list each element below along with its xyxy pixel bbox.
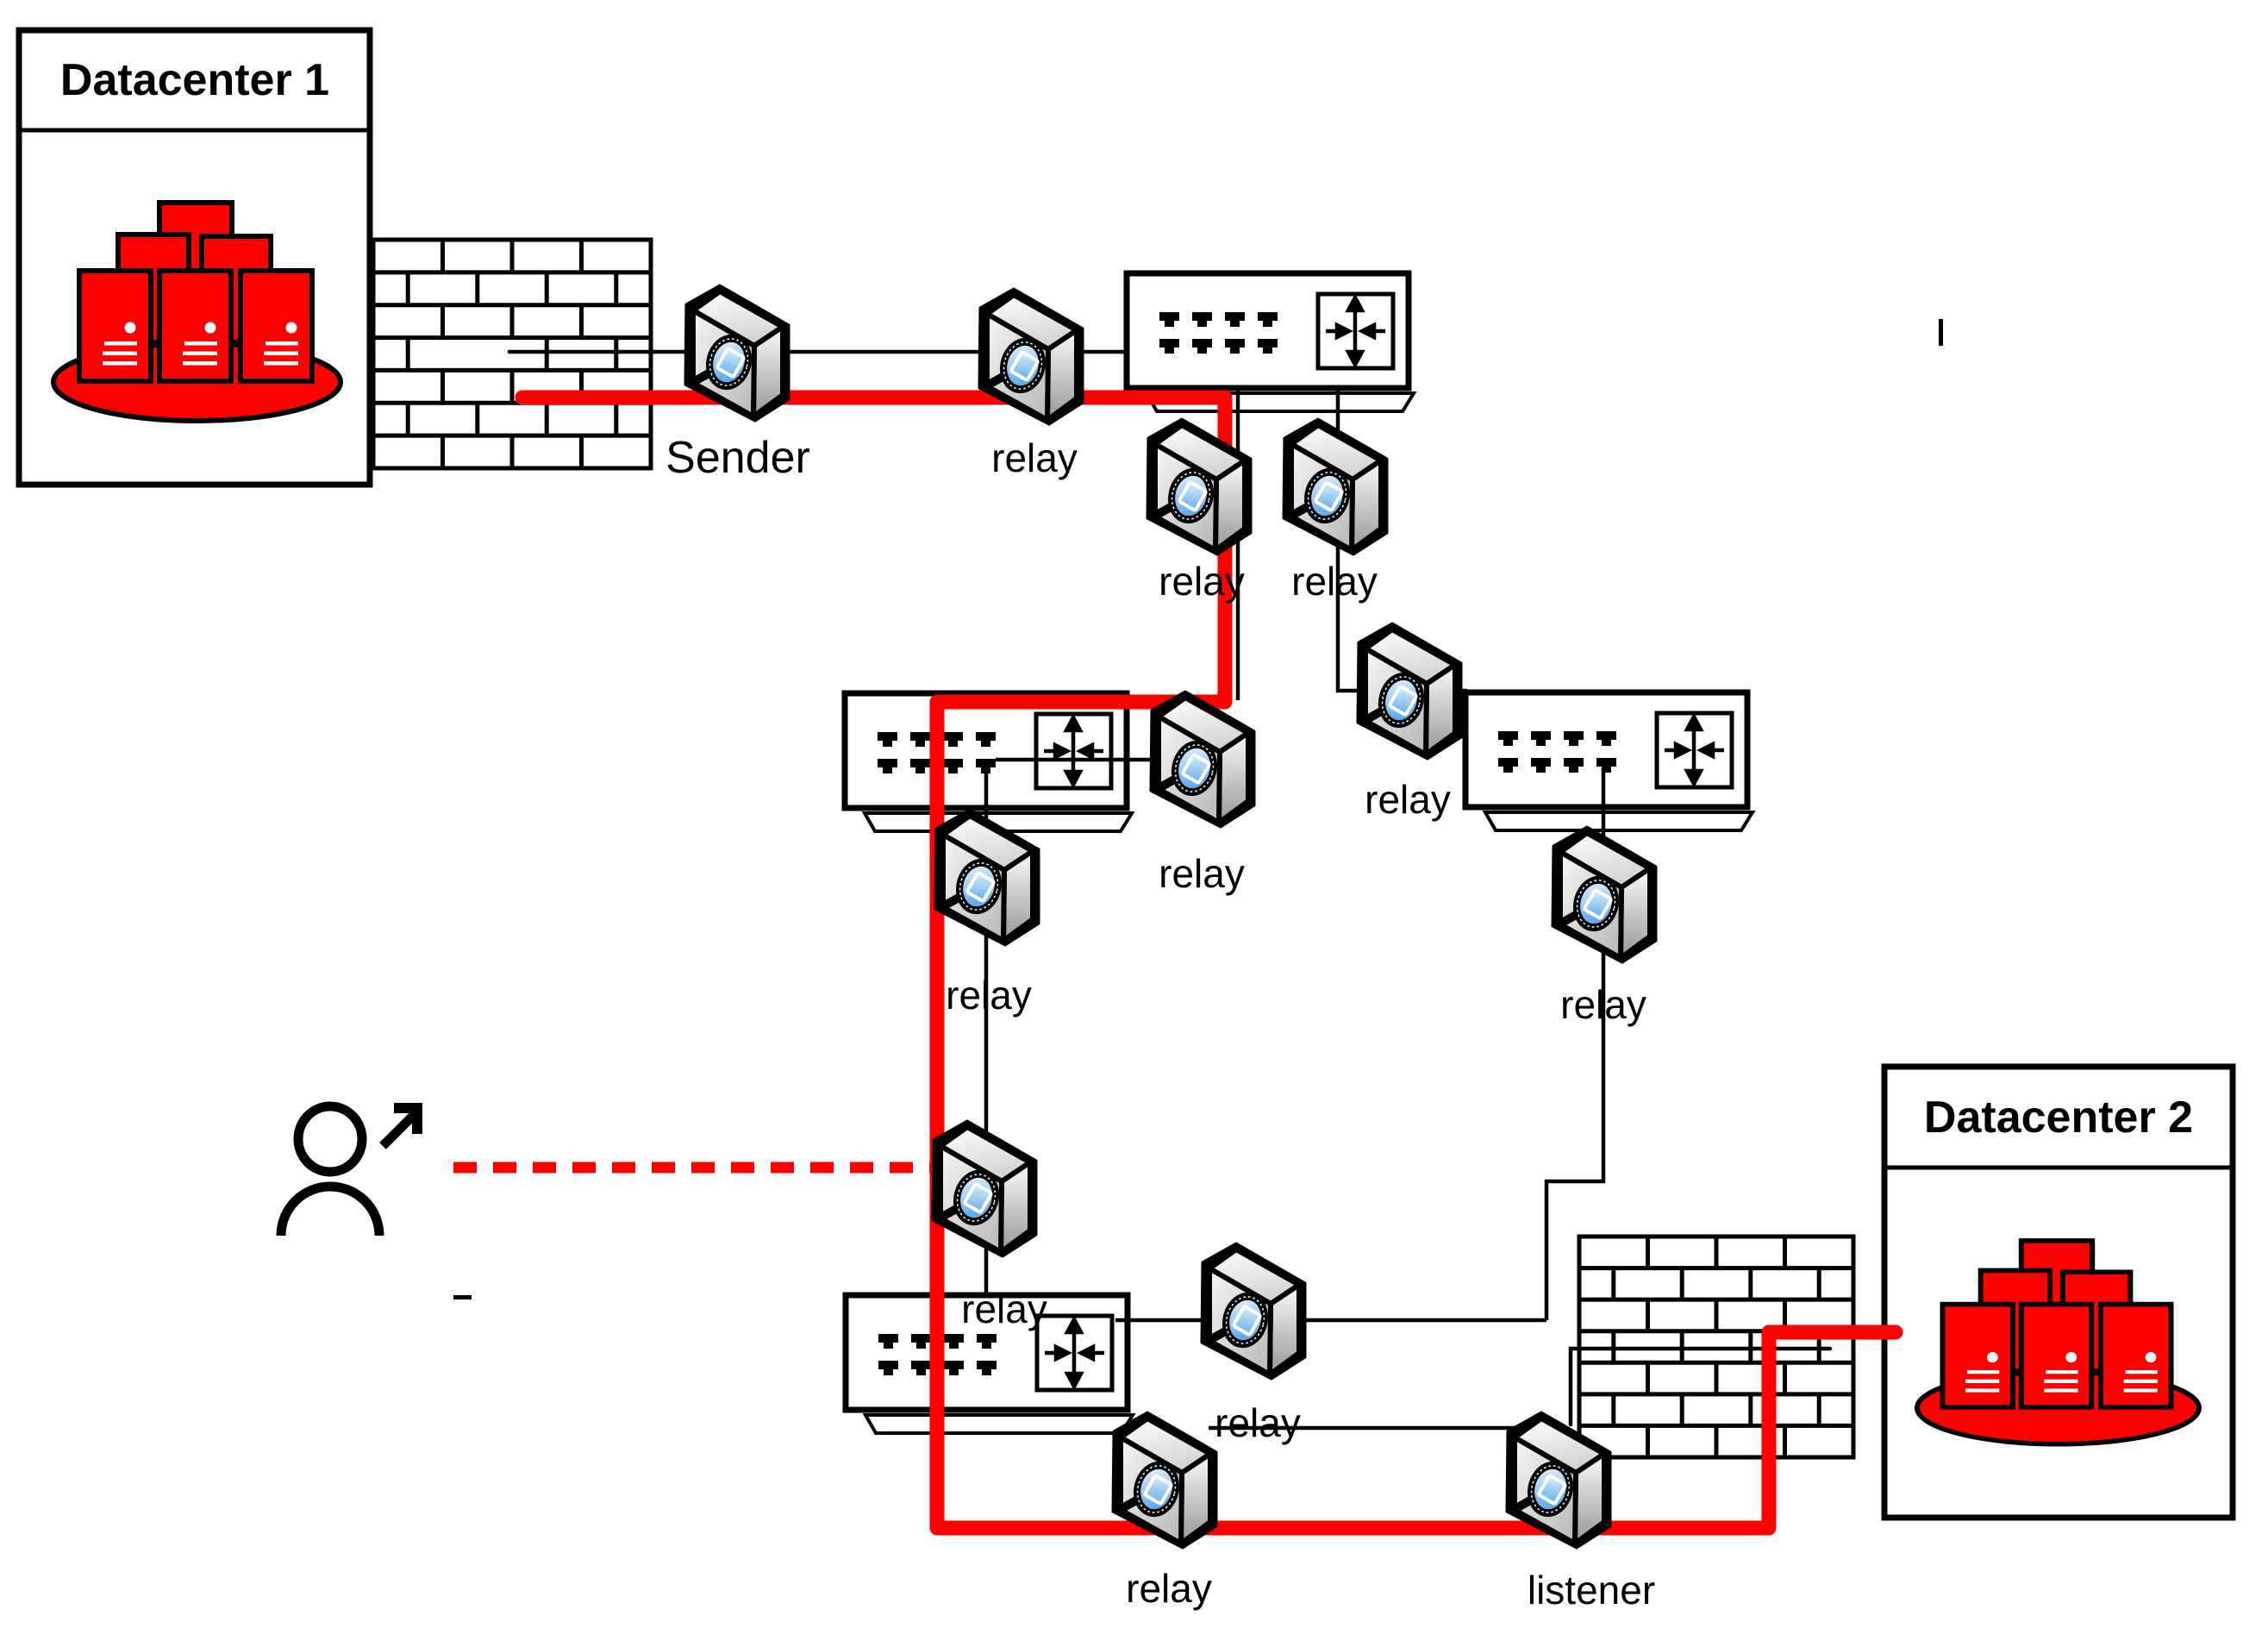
svg-text:relay: relay <box>1159 559 1245 604</box>
wire listener up and through firewall 2 <box>1571 1349 1830 1424</box>
router/switch SW1 (top) <box>1127 273 1414 411</box>
Datacenter 2 server stack <box>1917 1241 2199 1444</box>
relay node R4 (below router 1 right) <box>1284 419 1387 554</box>
relay node listener <box>1507 1412 1610 1548</box>
red data path from Datacenter 1 through relays to Datacenter 2 <box>522 398 1896 1528</box>
svg-text:Datacenter 1: Datacenter 1 <box>60 55 329 105</box>
Datacenter 2 box <box>1884 1067 2233 1518</box>
relay node R11 (bottom row) <box>1113 1412 1216 1548</box>
svg-text:relay: relay <box>1159 851 1245 896</box>
relay node R7 (below router 2) <box>935 810 1039 945</box>
router/switch SW4 (bottom left) <box>846 1295 1133 1433</box>
svg-text:listener: listener <box>1528 1568 1655 1612</box>
relay node R2 (top row) <box>979 289 1083 424</box>
router/switch SW3 (middle right) <box>1465 692 1753 830</box>
Datacenter 1 server stack <box>53 203 341 421</box>
router/switch SW2 (middle left) <box>845 693 1132 831</box>
wire router SW2 port to relay R6 <box>996 758 1164 762</box>
wire router SW1 down through relay R3 to relay R6 <box>1236 390 1240 700</box>
wire firewall1 to Sender to relay R2 to router SW1 <box>509 350 1127 354</box>
svg-text:relay: relay <box>1126 1566 1212 1611</box>
relay node R6 (right of router 2) <box>1151 692 1254 827</box>
svg-text:relay: relay <box>961 1287 1047 1331</box>
firewall brick wall 2 (next to Datacenter 2) <box>1579 1237 1853 1457</box>
svg-text:relay: relay <box>1291 559 1378 604</box>
wire router SW4 arrowbox through relay R10 to junction <box>1115 1318 1546 1323</box>
svg-text:relay: relay <box>946 973 1032 1017</box>
stray dash below person <box>453 1295 472 1299</box>
relay node R8 (below router 3) <box>1553 827 1656 962</box>
svg-text:Datacenter 2: Datacenter 2 <box>1924 1093 2193 1143</box>
svg-text:relay: relay <box>1215 1400 1301 1445</box>
person / attacker icon <box>281 1103 422 1236</box>
wire router SW2 down through relay R7 and relay R9 to router SW4 <box>984 773 989 1298</box>
Datacenter 1 box <box>19 30 370 485</box>
wire router SW3 port down through relay R8 stepping to wire junction <box>1546 767 1603 1320</box>
svg-text:Sender: Sender <box>665 433 810 483</box>
wire router SW1 down through relay R4 to relay R5 <box>1338 390 1467 691</box>
relay node R5 (left of router 3) <box>1358 623 1461 759</box>
relay node R3 (below router 1 left) <box>1147 419 1251 554</box>
red dashed attack path from person to relay R9 <box>453 1162 935 1174</box>
relay node R10 (right of router 4) <box>1202 1243 1305 1379</box>
svg-text:relay: relay <box>1560 982 1646 1027</box>
stray glyph l (top right) <box>1939 319 1943 346</box>
firewall brick wall 1 (next to Datacenter 1) <box>373 240 651 468</box>
svg-text:relay: relay <box>1365 777 1451 822</box>
svg-text:relay: relay <box>991 435 1078 480</box>
relay node Sender <box>685 285 789 421</box>
relay node R9 (middle left column) <box>933 1121 1036 1256</box>
wire relay R11 to listener <box>1209 1426 1519 1431</box>
